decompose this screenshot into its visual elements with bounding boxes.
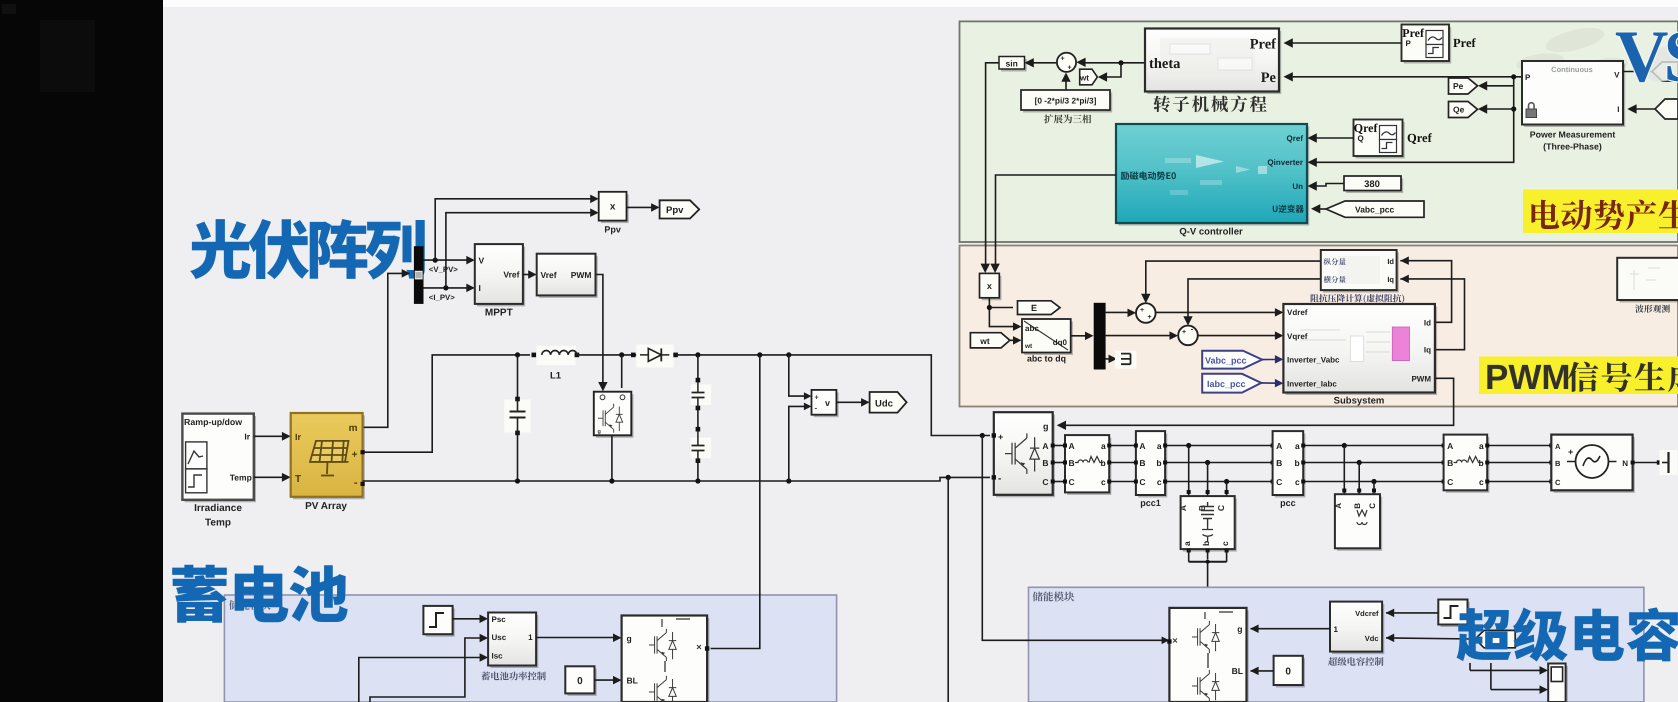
wire heng output to sum2 top	[1188, 279, 1321, 322]
svg-text:I: I	[1617, 105, 1619, 114]
block supercap control	[1332, 604, 1384, 654]
svg-text:B: B	[1353, 503, 1362, 509]
wire to scope upper	[1470, 669, 1545, 671]
wire MPPT Vref to PWM block	[523, 274, 533, 276]
svg-text:wt: wt	[1079, 73, 1089, 82]
block shunt three-phase branch	[1337, 497, 1382, 551]
svg-text:v: v	[825, 398, 830, 408]
panel: PWM generation (pink)	[960, 246, 1678, 407]
svg-text:+: +	[1060, 56, 1064, 63]
svg-text:g: g	[627, 634, 632, 644]
svg-text:Ramp-up/dow: Ramp-up/dow	[184, 417, 242, 427]
svg-text:a: a	[1182, 541, 1192, 546]
wire Ir to PV	[254, 435, 287, 437]
wire battery ctrl to gate	[536, 637, 618, 639]
wire Iabc to subsystem	[1261, 382, 1280, 384]
demux bar (pink panel)	[1094, 303, 1106, 370]
svg-text:+: +	[815, 395, 819, 402]
wire voltage tap plus	[789, 355, 808, 396]
wire PV plus to top rail	[363, 355, 530, 452]
block MPPT	[477, 247, 525, 307]
svg-text:+: +	[1140, 307, 1144, 314]
wire zong output to sum1 top	[1146, 261, 1321, 299]
svg-text:Pe: Pe	[1453, 81, 1464, 91]
inductor L1	[536, 346, 575, 365]
label zhuanzi-jixie-fangcheng	[1153, 96, 1266, 113]
svg-text:Iabc_pcc: Iabc_pcc	[1207, 379, 1246, 389]
svg-text:+: +	[1147, 314, 1151, 321]
title dian-dong-shi-chan-sheng	[1531, 200, 1678, 230]
scope block stacked	[1550, 666, 1567, 702]
svg-text:<V_PV>: <V_PV>	[429, 265, 458, 274]
svg-text:c: c	[1295, 477, 1300, 487]
wire voltage tap minus	[789, 406, 808, 481]
wire supercap ctrl to gate	[1251, 628, 1331, 630]
svg-text:A: A	[1447, 441, 1453, 451]
wire supercap feed (overlay)	[1026, 639, 1166, 641]
source block Qref	[1356, 122, 1405, 159]
wire Pe line from theta to junction	[1287, 76, 1522, 78]
svg-text:Vdref: Vdref	[1287, 308, 1308, 317]
wire Qref to QV controller	[1311, 137, 1354, 139]
svg-text:Vabc_pcc: Vabc_pcc	[1205, 356, 1247, 366]
svg-text:pcc1: pcc1	[1140, 498, 1161, 508]
svg-text:C: C	[1069, 477, 1075, 487]
block sin (trig function)	[1001, 59, 1026, 72]
svg-text:C: C	[1368, 503, 1377, 509]
svg-text:Vqref: Vqref	[1287, 332, 1308, 341]
wire 380 to Un	[1311, 184, 1344, 187]
svg-text:L1: L1	[550, 371, 562, 382]
wire C1 to bottom rail	[517, 433, 519, 481]
wire 0 to BL supercap	[1251, 670, 1274, 672]
svg-text:B: B	[1042, 458, 1048, 468]
svg-text:+: +	[1182, 329, 1186, 336]
block Subsystem (current control)	[1286, 307, 1438, 396]
svg-text:Vref: Vref	[503, 270, 519, 280]
svg-text:Pe: Pe	[1261, 70, 1277, 86]
svg-text:m: m	[349, 423, 358, 434]
svg-text:Isc: Isc	[492, 652, 504, 661]
constant 0 supercap	[1276, 658, 1305, 687]
block battery half-bridge	[624, 618, 710, 702]
wire pcc1 to pcc phase c	[1165, 481, 1273, 483]
svg-text:Irradiance: Irradiance	[194, 503, 242, 514]
svg-text:x: x	[610, 202, 616, 213]
svg-text:BL: BL	[627, 676, 638, 686]
svg-text:+: +	[1568, 447, 1573, 457]
wire dq0 to demux	[1071, 335, 1090, 337]
svg-text:sin: sin	[1006, 58, 1018, 68]
goto tag Ppv	[660, 200, 700, 218]
svg-text:Ppv: Ppv	[666, 205, 684, 216]
svg-text:PWM: PWM	[571, 270, 592, 280]
wire V_PV to MPPT and product	[424, 259, 472, 261]
goto tag Pe	[1449, 78, 1478, 94]
wire Vabc to subsystem	[1262, 358, 1280, 360]
svg-text:theta: theta	[1149, 56, 1181, 72]
ground neutral terminal	[1660, 450, 1678, 475]
svg-text:Q-V controller: Q-V controller	[1179, 227, 1243, 238]
svg-text:Qref: Qref	[1287, 134, 1304, 143]
goto tag Udc	[870, 392, 907, 413]
source block Pref	[1404, 27, 1452, 64]
svg-text:b: b	[1294, 458, 1299, 468]
svg-text:Ppv: Ppv	[604, 225, 621, 235]
wire tag to Vdc	[1386, 638, 1475, 639]
title guang-fu-zhen-lie	[190, 219, 425, 280]
wire boost igbt bottom to rail	[611, 435, 613, 481]
svg-text:T: T	[295, 474, 301, 485]
svg-text:C: C	[1139, 477, 1145, 487]
wire pcc to branch2 phase a	[1303, 445, 1443, 447]
wire 0 to BL battery	[595, 679, 619, 681]
sum junction circle (add phase)	[1057, 53, 1076, 72]
wire C2 to bottom rail	[697, 461, 699, 481]
sum1 circle (pink)	[1136, 303, 1156, 323]
block PV Array	[293, 416, 365, 500]
label chuneng-mokuai 2	[1033, 592, 1075, 602]
from tag Vabc_pcc (green panel)	[1326, 201, 1424, 217]
svg-text:B: B	[1276, 458, 1282, 468]
svg-text:x: x	[987, 281, 992, 291]
svg-text:B: B	[1447, 458, 1453, 468]
svg-text:dq0: dq0	[1053, 338, 1068, 347]
block PWM generator	[539, 256, 598, 298]
wire shunt tap A	[1343, 446, 1345, 495]
svg-text:abc to dq: abc to dq	[1027, 354, 1066, 364]
step source battery	[426, 608, 455, 636]
wire Isc sense	[359, 658, 485, 702]
svg-text:Qinverter: Qinverter	[1267, 158, 1303, 167]
svg-text:Inverter_Vabc: Inverter_Vabc	[1287, 356, 1340, 365]
svg-text:C: C	[1042, 477, 1048, 487]
title xu-dian-chi	[172, 565, 347, 623]
label battery power control	[481, 672, 545, 681]
wire top rail junction caps	[515, 352, 520, 357]
wire Id feedback loop	[1400, 261, 1451, 323]
wire wt to dq0	[1010, 339, 1018, 341]
svg-text:-: -	[354, 477, 358, 489]
svg-text:abc: abc	[1025, 324, 1039, 333]
svg-text:Continuous: Continuous	[1551, 65, 1593, 74]
wire constant to sum	[1065, 77, 1067, 91]
label kuozhan-weisanxiang	[1044, 114, 1091, 123]
svg-text:Usc: Usc	[492, 633, 507, 642]
svg-text:a: a	[1479, 441, 1484, 451]
wire shunt tap C	[1373, 482, 1375, 495]
wire pcc1 to pcc phase b	[1165, 462, 1273, 464]
wire x output to E and abc	[989, 298, 1018, 327]
svg-text:c: c	[1479, 477, 1484, 487]
wire battery riser	[711, 355, 760, 649]
svg-text:Pref: Pref	[1250, 37, 1276, 53]
svg-text:wt: wt	[979, 336, 990, 346]
svg-text:380: 380	[1364, 179, 1380, 190]
diode D1	[636, 345, 674, 368]
wire step to Vdcref	[1386, 612, 1438, 614]
block supercap half-bridge	[1172, 610, 1249, 702]
svg-text:A: A	[1555, 442, 1561, 451]
svg-text:1: 1	[528, 633, 533, 642]
edge from tag (I)	[1655, 99, 1678, 119]
svg-text:B: B	[1069, 458, 1075, 468]
wire branch1 to pcc1 phase a	[1109, 445, 1136, 447]
terminator block	[1115, 351, 1136, 369]
wire Usc sense	[370, 638, 485, 702]
wire dc minus down	[947, 477, 949, 702]
wire supercap feed	[982, 436, 1165, 641]
wire PM I port from edge tag	[1631, 108, 1655, 110]
svg-text:Pref: Pref	[1453, 36, 1477, 50]
wire branch2 to source A	[1487, 445, 1551, 447]
panel: supercap storage module	[1029, 587, 1644, 702]
product block x (E calc)	[982, 276, 1002, 300]
svg-text:Temp: Temp	[205, 518, 231, 529]
svg-text:PWM: PWM	[1411, 374, 1431, 383]
svg-text:wt: wt	[1024, 343, 1033, 350]
block three-phase load	[1183, 499, 1237, 552]
svg-text:Subsystem: Subsystem	[1334, 396, 1385, 407]
svg-text:g: g	[1237, 624, 1242, 634]
svg-text:I: I	[479, 283, 481, 293]
svg-text:Q: Q	[1358, 134, 1364, 143]
svg-text:+: +	[1067, 65, 1071, 72]
three-phase branch block 1	[1067, 438, 1111, 495]
svg-text:a: a	[1101, 441, 1106, 451]
wire sum to sin	[1029, 62, 1057, 64]
svg-text:Qref: Qref	[1354, 121, 1379, 135]
svg-text:A: A	[1276, 441, 1282, 451]
wire into Pe tag	[1481, 85, 1514, 87]
label impedance calc	[1311, 294, 1405, 303]
svg-text:V: V	[479, 255, 485, 265]
wire load grounding bar	[1188, 549, 1190, 559]
svg-text:A: A	[1178, 505, 1188, 511]
svg-text:P: P	[1406, 39, 1412, 48]
wire branch1 to pcc1 phase b	[1109, 462, 1136, 464]
wire bridge A to branch1	[1053, 445, 1065, 447]
wire source N to ground	[1633, 462, 1662, 464]
svg-text:A: A	[1139, 441, 1145, 451]
wire sin output to product E	[986, 63, 999, 271]
capacitor C1	[504, 399, 531, 432]
wire branch1 to pcc1 phase c	[1109, 481, 1136, 483]
wire load tap B	[1207, 463, 1209, 497]
ghost shape behind logo	[1648, 45, 1678, 81]
black sidebar	[0, 0, 163, 702]
wire sum1 to Vdref	[1156, 311, 1280, 313]
from tag wt (pink)	[970, 333, 1010, 348]
svg-text:Udc: Udc	[875, 399, 893, 410]
svg-text:Iq: Iq	[1424, 346, 1431, 355]
wire shunt tap B	[1358, 463, 1360, 495]
svg-text:N: N	[1622, 459, 1628, 468]
goto tag E	[1018, 301, 1061, 315]
svg-text:Vdc: Vdc	[1365, 634, 1379, 643]
wire battery riser (overlay)	[711, 593, 760, 649]
panel: VSG control subsystem (green)	[960, 21, 1678, 242]
wire into Qe tag	[1481, 108, 1514, 110]
wire E0 to product (overlay)	[995, 244, 997, 271]
wire sin to product (overlay)	[985, 244, 987, 271]
wire step to Psc	[453, 618, 485, 620]
wire bridge C to branch1	[1053, 481, 1065, 483]
wire Vabc_pcc to U port	[1318, 208, 1326, 210]
wire demux out3 to terminator	[1106, 358, 1112, 360]
svg-text:g: g	[1043, 422, 1049, 432]
wire pcc1 to pcc phase a	[1165, 445, 1273, 447]
wire Temp to PV	[254, 476, 287, 478]
capacitor C2 upper	[691, 385, 712, 406]
constant block [0 -2*pi/3 2*pi/3]	[1023, 93, 1112, 113]
block Q-V controller (teal)	[1118, 127, 1309, 226]
block rotor mechanical equation (theta)	[1147, 31, 1281, 94]
svg-text:-: -	[998, 474, 1001, 485]
block impedance voltage drop calc	[1323, 253, 1399, 293]
svg-text:Id: Id	[1424, 318, 1431, 327]
wire PV m to bus selector	[363, 273, 407, 427]
wire branch2 to source C	[1487, 481, 1551, 483]
block battery power control	[490, 615, 538, 668]
svg-text:B: B	[1555, 459, 1561, 468]
svg-text:+: +	[352, 450, 358, 461]
svg-text:BL: BL	[1232, 666, 1243, 676]
svg-text:Qe: Qe	[1453, 105, 1465, 115]
svg-text:Un: Un	[1292, 182, 1303, 191]
wire diode to inverter plus	[676, 355, 990, 436]
svg-text:a: a	[1295, 441, 1300, 451]
svg-text:<I_PV>: <I_PV>	[429, 293, 455, 302]
wire product to Ppv tag	[627, 206, 656, 208]
svg-text:c: c	[1157, 477, 1162, 487]
bus selector bar	[414, 246, 424, 304]
svg-text:pcc: pcc	[1280, 498, 1296, 508]
svg-text:P: P	[1525, 73, 1531, 82]
product block Ppv	[601, 194, 629, 223]
svg-text:g: g	[598, 429, 601, 435]
svg-text:-: -	[1191, 325, 1194, 334]
svg-text:Iq: Iq	[1387, 275, 1394, 284]
corner artifact	[2, 4, 16, 14]
svg-text:C: C	[1276, 477, 1282, 487]
wire between caps	[697, 408, 699, 429]
block pcc measurement	[1275, 434, 1306, 498]
svg-text:c: c	[1101, 477, 1106, 487]
yellow highlight EMF	[1523, 190, 1678, 234]
wire to scope lower	[1491, 689, 1545, 691]
goto tag Qe	[1449, 102, 1478, 118]
wire demux out2 to sum2	[1106, 335, 1175, 337]
wire theta to sum and junction	[1080, 62, 1145, 64]
wire sum2 to Vqref	[1198, 335, 1280, 337]
wire pcc to branch2 phase c	[1303, 481, 1443, 483]
constant 0 battery	[568, 669, 597, 696]
wire pcc to branch2 phase b	[1303, 462, 1443, 464]
svg-text:Pref: Pref	[1402, 26, 1425, 40]
wire load tap A	[1188, 446, 1190, 497]
block Power Measurement (Three-Phase)	[1524, 64, 1625, 128]
svg-text:A: A	[1334, 503, 1343, 509]
svg-text:VS: VS	[1615, 16, 1678, 98]
wire junction vertical down	[1311, 77, 1514, 163]
svg-text:0: 0	[1285, 667, 1291, 678]
svg-text:0: 0	[577, 676, 583, 687]
wire L1 to diode	[577, 354, 640, 356]
svg-text:Qref: Qref	[1407, 131, 1433, 145]
label chuneng-mokuai ghost	[229, 600, 271, 610]
panel: battery storage module	[224, 595, 836, 702]
wire I_PV to MPPT and product	[424, 287, 472, 289]
bottom dc rail	[363, 477, 990, 481]
wire v to Udc tag	[836, 401, 866, 403]
block Irradiance Temp source	[185, 416, 256, 502]
svg-text:PV Array: PV Array	[305, 501, 347, 512]
svg-text:-: -	[815, 404, 818, 413]
wire load neutral down	[1207, 562, 1209, 588]
svg-text:PWM: PWM	[1485, 358, 1571, 397]
wire load tap C	[1226, 482, 1228, 497]
svg-text:MPPT: MPPT	[485, 308, 513, 319]
svg-text:Inverter_Iabc: Inverter_Iabc	[1287, 380, 1337, 389]
from tag Kdis hidden	[1475, 630, 1515, 647]
yellow highlight PWM	[1479, 357, 1678, 395]
svg-text:b: b	[1201, 541, 1211, 546]
watermark wisps	[1515, 23, 1629, 82]
svg-text:+: +	[998, 432, 1003, 442]
wire theta Pref input	[1287, 42, 1402, 44]
wire PWM to boost gate	[596, 275, 603, 388]
svg-text:Temp: Temp	[230, 473, 252, 483]
block universal bridge inverter	[996, 415, 1055, 498]
title chao-ji-dian-rong	[1457, 607, 1678, 661]
svg-text:[0 -2*pi/3 2*pi/3]: [0 -2*pi/3 2*pi/3]	[1035, 96, 1097, 106]
svg-text:E: E	[1031, 303, 1037, 313]
block abc to dq0	[1024, 322, 1073, 356]
from tag Iabc_pcc (blue)	[1202, 374, 1261, 393]
svg-text:B: B	[1139, 458, 1145, 468]
svg-text:A: A	[1042, 441, 1048, 451]
wire junction down to wt goto	[1101, 63, 1121, 77]
block voltage measurement v	[814, 392, 839, 417]
wire branch2 to source B	[1487, 462, 1551, 464]
three-phase branch block 2	[1446, 437, 1490, 493]
label supercap control	[1328, 657, 1383, 666]
svg-text:1: 1	[1334, 625, 1339, 634]
svg-text:Id: Id	[1387, 257, 1394, 266]
goto tag wt (top)	[1080, 69, 1098, 85]
wire Iq feedback loop	[1400, 279, 1464, 350]
svg-text:C: C	[1447, 477, 1453, 487]
constant 380	[1346, 179, 1403, 194]
block three-phase source	[1554, 437, 1635, 493]
svg-text:Power Measurement: Power Measurement	[1530, 130, 1616, 140]
svg-text:A: A	[1069, 441, 1075, 451]
wire demux out1 to sum1	[1106, 311, 1133, 313]
svg-text:a: a	[1157, 441, 1162, 451]
svg-text:b: b	[1156, 458, 1161, 468]
wire E0 output to product	[996, 175, 1117, 271]
block boost IGBT switch	[596, 394, 634, 438]
from tag Vabc_pcc (blue)	[1202, 351, 1262, 369]
wire boost igbt top	[621, 355, 623, 388]
step source supercap	[1441, 602, 1470, 627]
label waveform observation	[1635, 305, 1670, 313]
svg-text:(Three-Phase): (Three-Phase)	[1543, 142, 1602, 152]
capacitor C2 lower	[691, 438, 712, 459]
svg-text:C: C	[1555, 478, 1561, 487]
white top strip	[163, 0, 1678, 7]
